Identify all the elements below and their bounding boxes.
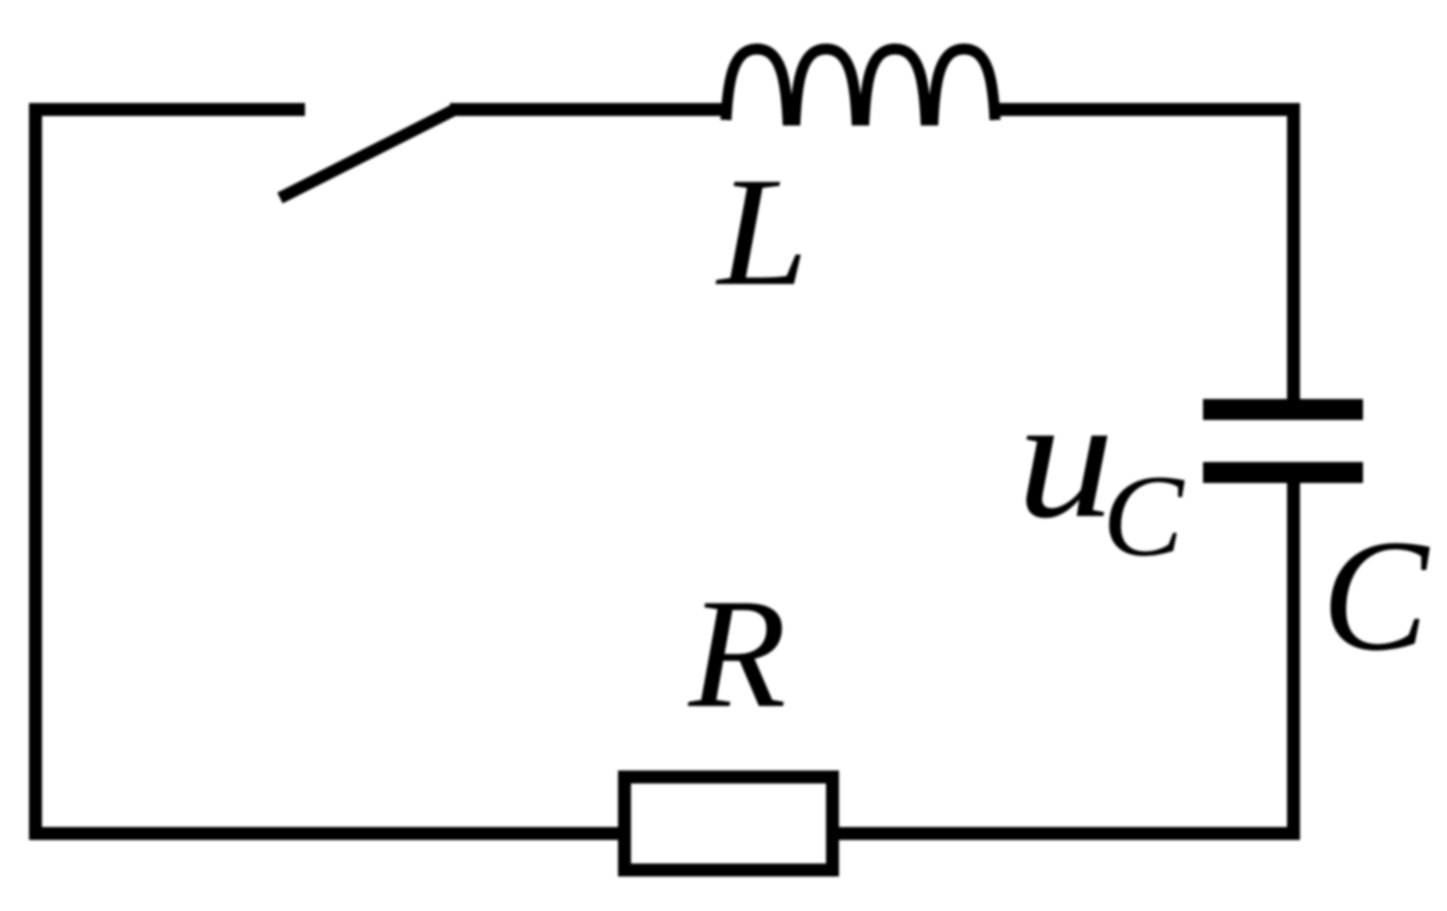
svg-text:C: C	[1322, 506, 1431, 684]
svg-text:C: C	[1102, 451, 1185, 580]
svg-text:u: u	[1017, 361, 1115, 555]
svg-text:L: L	[715, 145, 808, 319]
svg-text:R: R	[688, 567, 787, 740]
